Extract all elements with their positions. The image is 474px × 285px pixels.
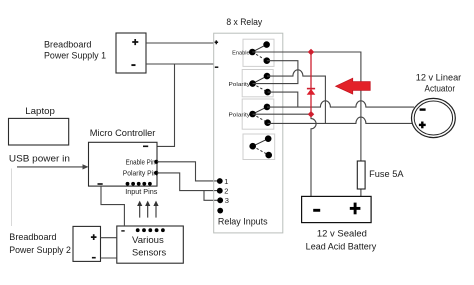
signal arrows sensors to input pins — [137, 201, 159, 218]
red direction arrow — [336, 78, 371, 94]
svg-text:Input Pins: Input Pins — [125, 187, 157, 196]
microcontroller U1 box — [89, 142, 158, 186]
svg-text:Power Supply 1: Power Supply 1 — [44, 50, 106, 60]
diode D1 symbol — [307, 89, 316, 95]
svg-text:Polarity Pin: Polarity Pin — [123, 168, 157, 177]
svg-text:8 x Relay: 8 x Relay — [226, 17, 262, 27]
svg-text:Breadboard: Breadboard — [9, 232, 56, 243]
relay board minus terminal — [215, 66, 219, 68]
svg-text:Relay Inputs: Relay Inputs — [218, 216, 268, 226]
relay K4 switch — [249, 135, 272, 158]
PS1 plus terminal — [132, 39, 138, 45]
svg-text:Polarity: Polarity — [229, 113, 251, 119]
battery BT1 box — [302, 196, 372, 222]
actuator minus terminal — [420, 108, 426, 110]
relay board outer box — [214, 33, 283, 233]
PS1 minus terminal — [131, 64, 135, 66]
wire relay K3 NC contact to linear actuator plus — [268, 117, 414, 123]
microcontroller input pin dots — [126, 182, 152, 186]
sensors minus terminal — [121, 230, 124, 232]
wire USB power arrow into microcontroller — [17, 166, 84, 168]
svg-text:12 v Linear: 12 v Linear — [416, 72, 462, 82]
svg-text:Enable: Enable — [232, 50, 250, 56]
svg-text:Enable Pin: Enable Pin — [126, 157, 156, 166]
svg-text:Actuator: Actuator — [425, 84, 456, 94]
wire relay K2 NC contact down to actuator minus line — [268, 92, 298, 107]
linear actuator M1 body — [412, 98, 456, 137]
microcontroller minus terminal bottom left — [98, 183, 103, 185]
sensors label — [132, 235, 166, 259]
svg-text:Various: Various — [132, 235, 164, 246]
flyback diode D1 red wire — [310, 52, 312, 114]
battery plus terminal — [350, 203, 361, 215]
relay input node 3 — [217, 197, 223, 203]
relay K1 switch — [249, 41, 270, 64]
PS2 minus terminal — [92, 257, 96, 259]
power supply PS1 box — [116, 33, 146, 73]
relay input node 4 — [217, 208, 223, 214]
wire relay K3 NO contact to linear actuator minus — [267, 101, 414, 107]
power supply PS2 label — [9, 232, 71, 256]
svg-text:3: 3 — [225, 196, 229, 205]
wire PS1 plus to relay board plus — [146, 42, 214, 44]
wire relay K3 common to diode node and battery minus — [253, 114, 317, 196]
wire relay K1 common to fuse and battery plus — [252, 52, 361, 196]
svg-text:Power Supply 2: Power Supply 2 — [9, 245, 71, 256]
relay K2 cell box — [242, 70, 273, 97]
wire PS1 minus to relay board minus — [146, 63, 214, 65]
wire branch polarity to relay input 3 — [204, 191, 218, 201]
sensors output dots — [136, 228, 165, 232]
wire microcontroller minus to sensors minus — [101, 186, 124, 226]
wire PS2 plus to sensors — [101, 237, 117, 239]
battery minus terminal — [313, 209, 320, 212]
fuse F1 — [357, 161, 365, 189]
relay input node 1 — [217, 178, 223, 184]
power supply PS2 box — [73, 226, 101, 261]
wire PS2 minus to sensors — [101, 257, 117, 259]
svg-text:Polarity: Polarity — [229, 82, 251, 88]
svg-text:Breadboard: Breadboard — [44, 39, 92, 49]
power supply PS1 label — [44, 39, 106, 60]
wire relay K1 NC contact to relay K2 common — [253, 61, 298, 84]
actuator plus terminal — [419, 122, 426, 129]
wire enable pin to relay input 1 — [157, 162, 217, 181]
svg-text:12 v Sealed: 12 v Sealed — [317, 229, 367, 239]
node junction diode bottom — [308, 111, 315, 118]
relay K1 cell box — [243, 39, 274, 66]
relay board plus terminal — [215, 40, 219, 44]
linear actuator M1 label — [416, 72, 462, 93]
wire relay K2 NO contact down to actuator plus line — [267, 70, 325, 124]
svg-text:1: 1 — [224, 177, 228, 186]
laptop box — [9, 118, 69, 145]
svg-text:Lead Acid Battery: Lead Acid Battery — [306, 241, 377, 251]
svg-text:USB power in: USB power in — [9, 154, 70, 165]
svg-text:2: 2 — [224, 187, 228, 196]
svg-text:Laptop: Laptop — [25, 106, 55, 116]
relay K3 cell box — [242, 99, 274, 129]
PS2 plus terminal — [91, 234, 97, 240]
wire branch PS1 minus down to microcontroller minus — [157, 64, 174, 146]
relay K3 switch — [249, 104, 271, 126]
svg-text:Fuse 5A: Fuse 5A — [369, 169, 403, 179]
svg-text:Micro Controller: Micro Controller — [90, 128, 156, 139]
node junction diode top — [308, 49, 315, 56]
battery label — [306, 229, 377, 252]
USB cable faint line — [11, 169, 13, 227]
various sensors box — [117, 226, 184, 263]
svg-text:Sensors: Sensors — [132, 248, 166, 259]
relay input node 2 — [217, 188, 223, 194]
microcontroller minus terminal top right — [143, 145, 148, 147]
wire polarity pin to relay input 2 — [157, 173, 217, 191]
relay K2 switch — [249, 73, 271, 96]
relay K4 cell box — [243, 134, 275, 160]
